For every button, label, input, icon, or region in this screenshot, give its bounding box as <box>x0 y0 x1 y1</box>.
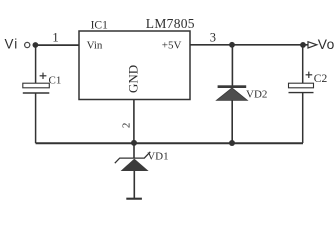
capacitor C2 positive plate <box>289 83 314 88</box>
capacitor C2 top lead wire <box>302 45 304 83</box>
VD1 label <box>147 151 168 163</box>
junction dot GND node <box>131 140 137 146</box>
pin name GND (rotated) <box>125 65 140 93</box>
IC1 reference label <box>91 19 109 31</box>
pin name Vin <box>87 39 103 51</box>
capacitor C1 negative plate <box>23 92 50 94</box>
wire VD1 bottom lead <box>133 171 135 199</box>
capacitor C2 bottom lead wire <box>302 93 304 143</box>
svg-text:IC1: IC1 <box>91 19 109 31</box>
wire VD2 top lead <box>231 45 233 86</box>
svg-text:VD2: VD2 <box>246 88 267 100</box>
node Vi label <box>5 36 19 51</box>
op-amp U1 box (regulator IC body) <box>79 31 190 100</box>
junction dot VD2 top node <box>229 42 235 48</box>
junction dot input node <box>33 42 39 48</box>
C2 label <box>314 73 328 85</box>
capacitor C2 negative plate <box>289 92 314 94</box>
zener diode VD2 cathode bar <box>218 85 247 88</box>
wire input node to IC pin 1 <box>35 44 79 46</box>
output terminal triangle <box>308 42 317 48</box>
ground bar terminal <box>126 198 142 200</box>
pin name +5V <box>162 40 182 52</box>
pin number 3 <box>210 30 216 44</box>
junction dot output node <box>300 42 306 48</box>
pin number 1 <box>52 30 59 45</box>
zener diode VD1 triangle <box>121 159 149 171</box>
svg-text:+5V: +5V <box>162 40 182 52</box>
svg-text:1: 1 <box>52 30 59 45</box>
VD2 label <box>246 88 267 100</box>
wire IC pin 3 to output node <box>190 44 308 46</box>
wire IC pin 2 GND lead <box>133 100 135 144</box>
svg-text:Vo: Vo <box>318 37 335 52</box>
ground rail wire (bottom bus) <box>36 142 303 144</box>
input terminal circle <box>25 42 30 47</box>
capacitor C1 positive plate <box>23 83 50 88</box>
wire VD1 top lead <box>133 143 135 158</box>
svg-text:LM7805: LM7805 <box>146 16 195 31</box>
capacitor C1 plus sign <box>40 73 47 79</box>
svg-text:VD1: VD1 <box>147 151 168 163</box>
zener diode VD1 cathode bar with ticks <box>115 152 151 163</box>
svg-text:2: 2 <box>121 123 133 129</box>
capacitor C2 plus sign <box>306 72 313 78</box>
LM7805 value label <box>146 16 195 31</box>
svg-text:GND: GND <box>125 65 140 93</box>
capacitor C1 bottom lead wire <box>35 93 37 143</box>
svg-text:Vi: Vi <box>5 36 19 51</box>
svg-text:C1: C1 <box>49 74 62 86</box>
C1 label <box>49 74 62 86</box>
svg-text:C2: C2 <box>314 73 328 85</box>
capacitor C1 top lead wire <box>35 45 37 83</box>
wire VD2 bottom lead <box>231 100 233 143</box>
zener diode VD2 triangle <box>216 88 247 101</box>
svg-text:3: 3 <box>210 30 216 44</box>
svg-text:Vin: Vin <box>87 39 103 51</box>
pin number 2 (rotated) <box>121 123 133 129</box>
junction dot VD2 bottom node <box>229 140 235 146</box>
node Vo label <box>318 37 335 52</box>
